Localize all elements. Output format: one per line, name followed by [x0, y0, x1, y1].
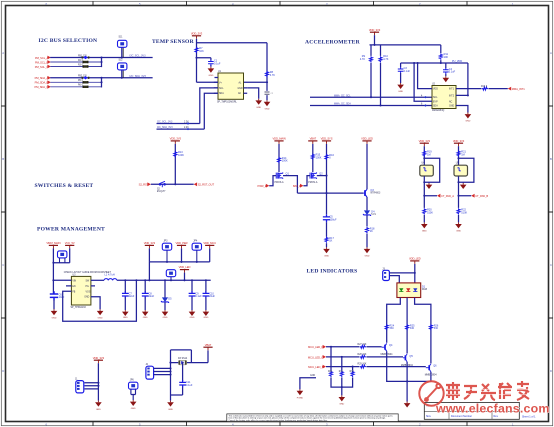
svg-text:100K: 100K — [282, 160, 288, 163]
wire emitter rail — [387, 351, 431, 401]
wire q1 gate — [269, 176, 276, 186]
wire mid rail — [401, 60, 468, 63]
wire row G — [326, 356, 403, 358]
ground — [465, 113, 472, 123]
wire j2 gnd — [170, 395, 172, 401]
resistor R3 — [78, 64, 88, 67]
svg-text:MMA_INT1: MMA_INT1 — [512, 87, 525, 91]
wire byp pin — [414, 63, 432, 101]
jumper JP6 — [129, 379, 138, 389]
svg-text:PM_SDA_C: PM_SDA_C — [35, 85, 49, 89]
svg-text:L1 4.7uH: L1 4.7uH — [105, 274, 115, 277]
net flag LED_B — [308, 365, 326, 369]
svg-text:MMA8453Q: MMA8453Q — [432, 109, 444, 112]
svg-text:SP_TMP102AIDRL: SP_TMP102AIDRL — [217, 101, 238, 104]
svg-text:JP4: JP4 — [193, 241, 198, 243]
resistor R11 — [439, 45, 448, 60]
solder jumper JP2 — [58, 251, 67, 263]
svg-text:VBAT: VBAT — [205, 343, 212, 347]
net label scl — [157, 121, 190, 125]
wire q3 emitter — [366, 197, 368, 210]
svg-text:VDD_MAIN: VDD_MAIN — [272, 137, 285, 141]
wire to jumper1 — [121, 47, 123, 58]
svg-text:10uF: 10uF — [59, 296, 65, 299]
wire vdd down — [196, 39, 198, 83]
ground — [130, 400, 137, 410]
svg-text:VBAT_MAIN: VBAT_MAIN — [46, 241, 60, 245]
wire j2 pins — [154, 368, 171, 374]
svg-text:I2C_SDA_3V3: I2C_SDA_3V3 — [130, 75, 147, 78]
svg-text:I2C BUS SELECTION: I2C BUS SELECTION — [39, 38, 98, 44]
resistor R13 — [174, 151, 184, 157]
svg-text:VDD_3V3: VDD_3V3 — [93, 356, 105, 360]
svg-text:PU_VDD: PU_VDD — [452, 60, 462, 63]
wire gnd pin — [247, 88, 259, 99]
svg-text:GND: GND — [168, 409, 173, 411]
svg-text:I2C_SDA_3V3: I2C_SDA_3V3 — [157, 126, 173, 129]
wire row1 — [51, 57, 152, 59]
svg-text:POWER MANAGEMENT: POWER MANAGEMENT — [37, 227, 105, 233]
svg-text:R28 10K: R28 10K — [358, 354, 367, 356]
power VDD_MCU — [203, 241, 216, 262]
svg-text:FB: FB — [72, 291, 75, 293]
svg-text:CT_PAD_B: CT_PAD_B — [475, 194, 488, 198]
svg-text:GND: GND — [324, 256, 329, 258]
transistor Q2 pmos — [308, 172, 323, 184]
capacitor C3 — [398, 63, 411, 83]
resistor R8 — [266, 71, 276, 77]
svg-text:GND: GND — [456, 231, 461, 233]
svg-text:SDA: SDA — [433, 105, 438, 108]
resistor R17 — [325, 237, 334, 243]
svg-text:VDD_SYS: VDD_SYS — [321, 137, 333, 141]
svg-text:GND: GND — [163, 317, 168, 319]
resistor R22 — [457, 208, 467, 214]
svg-text:EVQ-P7: EVQ-P7 — [157, 191, 166, 193]
capacitor C8 — [142, 279, 155, 310]
power VDD_3V3 j1 — [93, 356, 105, 363]
wire led left leg — [387, 298, 401, 343]
svg-text:B: B — [550, 157, 552, 161]
wire q2 gate — [303, 176, 310, 186]
svg-text:BAT_E: BAT_E — [293, 184, 301, 188]
switch S2 — [157, 181, 166, 193]
svg-text:Consult the factory sales offi: Consult the factory sales office for cur… — [229, 419, 328, 422]
wire scl bottom — [157, 123, 200, 125]
net flag LED_G — [308, 355, 326, 359]
wire j3 pin2 — [389, 276, 399, 283]
svg-text:GND: GND — [98, 318, 103, 320]
svg-text:A: A — [550, 51, 552, 55]
resistor R20 — [423, 208, 433, 214]
wire sda line — [310, 105, 432, 107]
svg-text:22uF: 22uF — [149, 295, 155, 298]
svg-text:4.7K: 4.7K — [383, 58, 388, 61]
led green element — [399, 288, 403, 291]
net label MMA_I2C_SCL — [334, 94, 427, 98]
svg-text:VDD_3V3: VDD_3V3 — [419, 139, 431, 143]
power VDD_MAIN — [272, 137, 285, 144]
resistor R27 — [358, 344, 367, 348]
svg-text:GND: GND — [398, 91, 403, 93]
svg-text:R12 0: R12 0 — [481, 86, 488, 88]
svg-text:MCU_LED_R: MCU_LED_R — [308, 345, 324, 349]
wire b mid — [459, 176, 472, 195]
wire cap branch j2 — [171, 363, 183, 395]
wire gnd pin — [456, 106, 468, 113]
svg-text:GND: GND — [449, 106, 454, 108]
svg-text:B: B — [2, 157, 4, 161]
svg-text:PMOS-A: PMOS-A — [308, 181, 318, 184]
ground — [397, 83, 404, 93]
svg-text:0.1uF: 0.1uF — [186, 384, 193, 387]
svg-text:330: 330 — [434, 327, 439, 330]
capacitor C2 — [265, 92, 274, 95]
wire a mid — [424, 176, 437, 195]
wire pullup sda — [380, 63, 382, 106]
power VBAT — [308, 137, 317, 144]
capacitor C11 — [179, 380, 193, 387]
resistor R31 — [339, 371, 344, 377]
wire reset row — [151, 183, 194, 185]
wire sda bottom — [157, 128, 205, 130]
resistor R18 — [366, 227, 375, 233]
net label MMA_I2C_SDA — [334, 103, 427, 107]
wire vdd pin — [418, 63, 432, 89]
connector J1 — [75, 379, 84, 393]
ground — [167, 401, 174, 411]
svg-text:4.7K: 4.7K — [360, 58, 365, 61]
ground — [264, 100, 271, 110]
ground — [364, 247, 371, 257]
wire tap B — [352, 367, 354, 371]
svg-text:Sheet 1 of 1: Sheet 1 of 1 — [522, 416, 536, 419]
svg-text:Size: Size — [426, 415, 431, 418]
net flag PM_SCL_A — [35, 56, 51, 60]
svg-text:SDA: SDA — [219, 92, 224, 95]
wire to gnd — [366, 234, 368, 248]
net flag PM_SDA_B — [35, 80, 51, 84]
svg-text:R31: R31 — [339, 371, 344, 373]
wire b low — [458, 196, 460, 208]
svg-text:VIN: VIN — [72, 280, 76, 282]
svg-text:www.elecfans.com: www.elecfans.com — [435, 402, 550, 416]
inductor L1 — [91, 274, 117, 281]
wire bus join 2 — [101, 78, 103, 87]
wire a low — [423, 196, 425, 208]
wire top link — [171, 350, 209, 363]
ground — [208, 67, 215, 77]
wire scl line — [310, 96, 432, 98]
capacitor C10 — [203, 279, 216, 310]
svg-text:INT2: INT2 — [449, 95, 455, 97]
net flag PM_SDA_A — [35, 76, 51, 80]
transistor Q1 pmos — [275, 172, 290, 184]
svg-text:330: 330 — [390, 327, 395, 330]
svg-text:0.1uF: 0.1uF — [404, 70, 411, 73]
wire row R — [326, 346, 382, 348]
svg-text:MCU_LED_G: MCU_LED_G — [308, 355, 324, 359]
wire to gnd — [423, 215, 425, 223]
svg-text:100K: 100K — [316, 156, 322, 159]
svg-text:VDD_3V3: VDD_3V3 — [453, 139, 465, 143]
wire cap2 branch — [266, 82, 268, 100]
wire b down — [458, 146, 460, 165]
svg-text:VCC_5V: VCC_5V — [65, 241, 75, 245]
svg-text:100uF: 100uF — [330, 219, 338, 222]
svg-text:GND: GND — [208, 75, 213, 77]
power VDD_LED — [361, 137, 373, 144]
rail wire vout — [117, 279, 211, 281]
resistor R25 — [406, 324, 415, 330]
resistor R15 — [311, 154, 321, 160]
resistor R5 — [78, 80, 88, 83]
upper rail — [149, 262, 209, 280]
svg-text:GND: GND — [131, 408, 136, 410]
svg-text:S2_RST: S2_RST — [139, 183, 149, 187]
power VBAT j2 — [203, 343, 212, 350]
ground — [404, 402, 411, 408]
wire jp6 down — [131, 389, 136, 400]
svg-text:PM_SDA_A: PM_SDA_A — [35, 76, 49, 80]
svg-text:GND: GND — [84, 297, 89, 299]
solder jumper JP4 — [192, 241, 201, 263]
wire to gnd — [458, 215, 460, 223]
svg-text:PM_SCL_C: PM_SCL_C — [35, 65, 49, 69]
wire row4 — [51, 77, 152, 79]
wire x4 down — [366, 144, 368, 189]
svg-text:S2_RST_OUT: S2_RST_OUT — [198, 183, 215, 187]
svg-text:22uF: 22uF — [129, 295, 135, 298]
svg-text:100K: 100K — [178, 154, 184, 157]
ground — [421, 222, 428, 232]
svg-text:VBAT: VBAT — [310, 137, 317, 141]
wire pullup scl — [370, 63, 372, 97]
resistor R4 — [78, 76, 89, 80]
ground — [97, 309, 104, 319]
resistor R14 — [278, 157, 288, 163]
svg-text:VDD: VDD — [433, 89, 438, 91]
power VDD_3V3 — [369, 28, 381, 35]
ground — [189, 310, 196, 319]
resistor R24 — [385, 324, 394, 330]
wire row B — [326, 366, 426, 368]
wire q2 down — [312, 144, 314, 172]
wire j3 pin1 — [389, 272, 414, 274]
svg-text:NC: NC — [449, 101, 453, 103]
svg-text:TEMP SENSOR: TEMP SENSOR — [152, 39, 195, 45]
net label sda — [157, 126, 190, 130]
wire j2 vertical — [170, 350, 172, 395]
wire tap R — [330, 347, 332, 371]
svg-text:PM_SCL_B: PM_SCL_B — [35, 60, 49, 64]
svg-text:VDD_LED: VDD_LED — [409, 257, 421, 261]
svg-text:PWR_E: PWR_E — [258, 184, 267, 188]
resistor R9 pullup — [360, 45, 373, 63]
IC U3 regulator — [66, 275, 95, 309]
svg-text:VDD_3V3: VDD_3V3 — [144, 241, 156, 245]
svg-text:10K: 10K — [199, 50, 204, 53]
svg-text:I2C_SCL_3V3: I2C_SCL_3V3 — [157, 121, 173, 124]
net flag SW_RESET in — [139, 182, 151, 186]
svg-text:VDD_3V3: VDD_3V3 — [170, 137, 182, 141]
power VDD_LED led — [409, 257, 421, 264]
svg-text:PMOS-A: PMOS-A — [275, 181, 285, 184]
capacitor C9 — [189, 279, 203, 310]
wire vin — [53, 279, 71, 281]
svg-text:VDD_LED: VDD_LED — [361, 137, 373, 141]
svg-text:PG: PG — [86, 286, 90, 288]
wire alert — [244, 81, 268, 83]
led blue element — [413, 288, 417, 291]
svg-text:D3 SS14: D3 SS14 — [178, 358, 188, 360]
svg-text:0.1uF: 0.1uF — [195, 295, 202, 298]
svg-text:A: A — [2, 51, 4, 55]
svg-text:0.1uF: 0.1uF — [214, 62, 221, 65]
svg-text:5.1V: 5.1V — [371, 214, 376, 216]
node junctions group1 — [100, 56, 102, 58]
capacitor C4 — [443, 63, 456, 74]
wire q2 out — [317, 175, 327, 177]
transistor Q4 — [381, 343, 394, 356]
power VDD_PER — [176, 241, 188, 263]
svg-text:GND: GND — [256, 107, 261, 109]
wire to jumper2 — [121, 69, 123, 78]
net flag EN1 — [258, 184, 270, 188]
svg-text:GND: GND — [238, 88, 243, 90]
capacitor C6 — [50, 291, 65, 309]
ground — [203, 310, 210, 319]
svg-text:EN: EN — [72, 286, 76, 288]
wire x3 down — [326, 144, 328, 214]
wire a down — [423, 146, 425, 165]
net flag LED_R — [308, 345, 326, 349]
wire row2 — [51, 61, 102, 63]
diode D3 — [178, 358, 188, 365]
resistor R26 — [429, 324, 438, 330]
svg-text:GND: GND — [365, 256, 370, 258]
svg-text:1K: 1K — [329, 240, 332, 243]
LED module D1 RGB — [397, 283, 428, 298]
net flag PM_SDA_C — [35, 85, 51, 89]
svg-text:NTR4003: NTR4003 — [370, 193, 381, 195]
wire int1 out — [489, 88, 508, 90]
power VDD_B — [453, 139, 465, 146]
wire top rail — [197, 43, 268, 83]
svg-text:D: D — [2, 369, 4, 373]
wire q1 down — [278, 144, 280, 172]
wire j1 pins — [85, 383, 99, 389]
ground — [51, 309, 58, 319]
svg-text:10K: 10K — [444, 56, 449, 59]
svg-text:CT_PAD_A: CT_PAD_A — [441, 194, 454, 198]
solder jumper JP5 — [166, 270, 175, 282]
capacitor C7 — [122, 279, 135, 310]
net flag PM_SCL_B — [35, 60, 51, 64]
resistor R30 — [328, 371, 333, 377]
IC U4 — [420, 163, 434, 177]
svg-text:510K: 510K — [427, 211, 433, 214]
resistor R19 — [423, 150, 432, 156]
resistor R32 — [350, 371, 355, 377]
svg-text:1M: 1M — [461, 154, 464, 157]
resistor R10 pullup — [379, 45, 389, 63]
svg-text:GND: GND — [52, 318, 57, 320]
svg-text:VDD_PER: VDD_PER — [176, 241, 188, 245]
svg-text:MMA_I2C_SCL: MMA_I2C_SCL — [334, 94, 351, 97]
wire j1 vertical — [97, 363, 99, 400]
connector J3 — [382, 268, 389, 280]
svg-text:0.1uF: 0.1uF — [449, 71, 456, 74]
net flag EN2 — [293, 184, 303, 188]
ground — [426, 182, 433, 189]
svg-text:4.7K: 4.7K — [270, 74, 275, 77]
net flag PAD_B — [471, 194, 488, 198]
svg-text:RGB: RGB — [422, 289, 427, 291]
wire pulldown join — [331, 377, 353, 395]
power VBAT_MAIN — [46, 241, 60, 248]
resistor R7 — [195, 47, 204, 53]
svg-text:22uF: 22uF — [209, 295, 215, 298]
ground — [142, 310, 149, 319]
svg-text:Rev: Rev — [494, 415, 499, 418]
power VDD_3V3 — [191, 31, 203, 38]
svg-text:VDD_3V3: VDD_3V3 — [191, 31, 203, 35]
power VDD_3V3 — [170, 137, 182, 144]
svg-text:ACCELEROMETER: ACCELEROMETER — [305, 40, 361, 46]
op IC U1 temp sensor — [214, 71, 247, 104]
IC U2 accelerometer — [432, 84, 456, 113]
solder jumper JP3 — [162, 241, 171, 263]
transistor Q5 — [401, 354, 414, 367]
svg-text:PM_SCL_A: PM_SCL_A — [35, 56, 49, 60]
svg-text:330: 330 — [410, 327, 415, 330]
svg-text:I2C_SCL_3V3: I2C_SCL_3V3 — [130, 55, 147, 58]
wire bus join 1 — [101, 58, 103, 67]
svg-text:MMA_I2C_SDA: MMA_I2C_SDA — [334, 103, 351, 106]
ground — [323, 247, 330, 257]
resistor R1 — [78, 55, 89, 59]
power VDD_A — [419, 139, 431, 146]
svg-text:SP_TPS62133: SP_TPS62133 — [71, 307, 87, 309]
power VDD_3V3 a — [144, 241, 156, 262]
wire row6 — [51, 86, 102, 88]
rail wire — [297, 192, 363, 194]
wire led mid leg — [406, 298, 408, 354]
svg-text:VDD_MCU: VDD_MCU — [203, 241, 216, 245]
transistor Q6 — [425, 364, 438, 377]
svg-text:R27 10K: R27 10K — [358, 344, 367, 346]
svg-text:510K: 510K — [461, 211, 467, 214]
ground — [255, 99, 262, 109]
wire scl riser — [200, 88, 218, 124]
svg-text:GND: GND — [339, 404, 344, 406]
transistor Q3 — [363, 189, 381, 197]
wire to gnd — [326, 243, 328, 247]
resistor R28 — [358, 354, 367, 358]
wire vdd down — [374, 35, 376, 45]
ground — [95, 401, 102, 411]
wire fb loop — [63, 280, 137, 321]
svg-text:R30: R30 — [328, 371, 333, 373]
svg-text:GND: GND — [422, 231, 427, 233]
svg-text:C: C — [550, 263, 552, 267]
svg-text:VDD_LED: VDD_LED — [179, 265, 191, 269]
svg-text:GND: GND — [123, 317, 128, 319]
ground — [455, 222, 462, 232]
wire sda riser — [204, 93, 218, 129]
svg-text:GND: GND — [96, 409, 101, 411]
